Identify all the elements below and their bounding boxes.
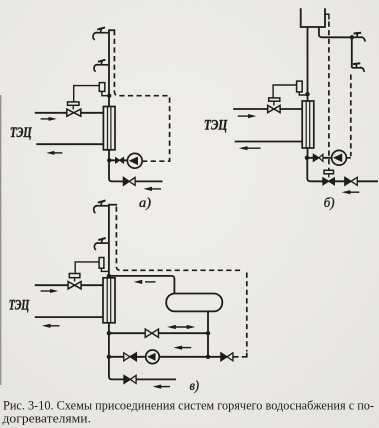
sensor hook to pipe (b) (299, 92, 307, 95)
valve actuator (v) (69, 274, 80, 278)
storage tank (v) (166, 294, 222, 312)
valve actuator (b) (269, 98, 280, 101)
capillary tube (v) (75, 262, 99, 274)
dashed circulation drop from taps (b) (347, 75, 351, 158)
capillary tube (a) (74, 86, 100, 102)
cold water inlet valve (v) (124, 375, 130, 383)
wire: supply pipe from TEC (b) (233, 108, 302, 110)
actuator stem (a) (72, 105, 74, 109)
flow arrow left (a return) (46, 151, 62, 155)
wire: tank outlet downpipe (v) (207, 311, 209, 356)
sensor hook to riser (v) (101, 268, 109, 271)
wire: riser top crossbar (a) (108, 29, 115, 31)
svg-text:ТЭЦ: ТЭЦ (10, 125, 32, 141)
flow arrow right (v supply) (41, 289, 59, 293)
junction dot middle line (v) (107, 331, 111, 335)
junction dot riser tee (v) (107, 274, 111, 278)
wire: pump suction stub (a) (109, 159, 127, 161)
tap K2 (a) (94, 60, 109, 72)
svg-text:Рис. 3-10. Схемы присоединения: Рис. 3-10. Схемы присоединения систем го… (3, 399, 374, 413)
actuator stem (v) (74, 278, 76, 282)
tap K2 (v) (94, 238, 109, 250)
wire: pipe below heat exchanger (v) (109, 323, 124, 380)
wire: hot line to storage tank (v) (109, 276, 174, 294)
circulation pump N1 (b) (332, 150, 347, 165)
wire: hot water riser (a) (108, 30, 110, 106)
wire: riser top crossbar (v) (108, 204, 117, 206)
dashed circulation downcomer (a) (142, 98, 169, 162)
wire: pipe below heat exchanger (a) (109, 150, 123, 182)
junction dot pump line (v) (107, 355, 111, 359)
circulation pump N1 (a) (127, 153, 142, 168)
actuator stem (b) (273, 101, 275, 105)
valve before pump (b) (313, 154, 319, 161)
svg-text:б): б) (324, 195, 335, 210)
dashed circulation downcomer (v) (246, 273, 248, 352)
tap K1 (b) (352, 33, 365, 42)
bypass valve (v) (145, 329, 152, 337)
cold water shutoff valve (b) (345, 177, 351, 185)
wire: return pipe to TEC (b) (235, 141, 303, 143)
flow arrow left (v tank line) (134, 280, 156, 284)
flow arrow left (v cold inlet) (153, 385, 170, 389)
regulator stem (b) (328, 174, 330, 178)
control valve RT (v) (68, 282, 75, 289)
wire: supply pipe from TEC (a) (35, 112, 104, 114)
circulation pump N1 (v) (146, 350, 160, 364)
wire: distribution offtake (b) (319, 27, 352, 37)
wire: return pipe to TEC (v) (35, 316, 103, 318)
level regulator actuator (b) (324, 170, 334, 174)
svg-text:догревателями.: догревателями. (3, 412, 92, 426)
feed hook over tank rim (b) (325, 14, 329, 19)
wire: supply pipe from TEC (v) (35, 284, 103, 286)
capillary tube (b) (273, 85, 297, 98)
tap K2 (b) (352, 63, 364, 72)
junction dot pump tee (b) (305, 156, 309, 160)
wire: cold water line riser corner (b) (307, 158, 323, 182)
wire: middle bypass line (v) (109, 332, 208, 334)
page edge line at far left (0, 95, 2, 385)
level regulator valve (b) (323, 178, 329, 185)
valve actuator (a) (68, 102, 80, 105)
junction dot sensor/pipe (b) (305, 92, 309, 96)
wire: pump line (v) (109, 356, 235, 358)
wire: cold water line (a) (135, 180, 162, 182)
flow arrow left (v return) (42, 324, 60, 328)
flow arrow left (a cold inlet) (143, 187, 161, 191)
circulation shutoff valve (v) (221, 353, 227, 361)
cold water inlet valve (a) (123, 177, 129, 185)
valve before pump (v) (124, 353, 130, 361)
dashed circulation riser (a) (114, 30, 168, 96)
dashed circulation riser (v) (116, 207, 242, 271)
heat exchanger W1 (b) (302, 101, 314, 148)
junction dot tank/middle line (v) (206, 331, 210, 335)
heat exchanger W1 (v) (103, 278, 115, 323)
tap K1 (v) (94, 201, 109, 213)
wire: downpipe tank to heat exchanger (b) (307, 27, 309, 101)
wire: cold water line (v) (136, 378, 176, 380)
open storage tank (b) (301, 8, 325, 27)
flow arrow right (b supply) (238, 114, 256, 118)
svg-text:в): в) (190, 378, 200, 393)
heat exchanger W1 (a) (103, 107, 115, 150)
flow arrow right (a supply) (41, 117, 57, 121)
flow arrow left (v pump line) (174, 346, 192, 350)
control valve RT (b) (268, 105, 274, 112)
control valve RT (a) (67, 109, 74, 116)
wire: return pipe to TEC (a) (36, 143, 103, 145)
junction dot tap riser (b) (350, 35, 354, 39)
junction dot pump tee (a) (107, 158, 111, 162)
wire: pump discharge stub (b) (307, 157, 332, 159)
wire: hot water riser (v) (108, 205, 110, 278)
dashed level impulse line (b) (328, 22, 330, 171)
svg-text:а): а) (139, 195, 152, 210)
sensor hook to riser (a) (102, 91, 109, 95)
valve before pump (a) (116, 158, 120, 163)
tap K1 (a) (93, 27, 109, 39)
wire: taps riser (b) (351, 37, 353, 68)
svg-text:ТЭЦ: ТЭЦ (204, 118, 228, 134)
wire: pipe below heat exchanger (b) (307, 148, 309, 158)
flow arrow left (b return) (239, 146, 261, 150)
junction dot tank/pump line (v) (206, 355, 210, 359)
junction dot sensor/riser (a) (107, 94, 111, 98)
temperature sensor TE (v) (99, 258, 104, 269)
flow double arrow (v bypass) (167, 325, 195, 329)
svg-text:ТЭЦ: ТЭЦ (9, 298, 30, 314)
flow arrow left (b cold inlet) (342, 190, 360, 194)
temperature sensor TE (b) (297, 81, 303, 92)
temperature sensor TE (a) (99, 83, 105, 92)
wire: cold water line (b) (334, 180, 378, 182)
